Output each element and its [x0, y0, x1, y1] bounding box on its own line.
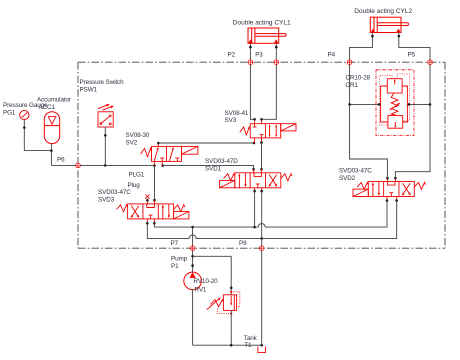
svg-text:Tank: Tank: [244, 335, 258, 342]
svg-text:SVD3: SVD3: [98, 197, 115, 204]
svg-text:Pump: Pump: [171, 256, 188, 263]
svg-text:SV08-41: SV08-41: [225, 110, 249, 117]
svg-text:SV2: SV2: [126, 140, 138, 147]
svg-text:SVD1: SVD1: [205, 165, 222, 172]
svg-text:SVD2: SVD2: [339, 175, 356, 182]
svg-text:PSW1: PSW1: [80, 87, 98, 94]
svg-text:CR10-28: CR10-28: [346, 75, 371, 82]
svg-text:P5: P5: [408, 52, 416, 59]
svg-text:Plug: Plug: [128, 182, 141, 189]
svg-text:P2: P2: [228, 52, 236, 59]
svg-text:PLG1: PLG1: [129, 172, 145, 179]
svg-text:PG1: PG1: [3, 109, 16, 116]
svg-text:SVD03-47C: SVD03-47C: [98, 189, 131, 196]
svg-text:P4: P4: [328, 52, 336, 59]
svg-text:T1: T1: [244, 342, 252, 349]
svg-text:Double acting CYL1: Double acting CYL1: [233, 20, 291, 27]
svg-text:Pressure Switch: Pressure Switch: [80, 79, 125, 86]
svg-text:Accumulator: Accumulator: [37, 97, 71, 104]
svg-text:P1: P1: [171, 263, 179, 270]
svg-text:RV10-20: RV10-20: [194, 278, 219, 285]
svg-text:P6: P6: [57, 157, 65, 164]
svg-text:SVD03-47C: SVD03-47C: [339, 168, 372, 175]
svg-text:SV3: SV3: [225, 117, 237, 124]
svg-text:P7: P7: [171, 240, 179, 247]
svg-text:ACC1: ACC1: [39, 104, 56, 111]
svg-text:SV08-30: SV08-30: [126, 132, 150, 139]
svg-text:SVD03-47D: SVD03-47D: [205, 158, 238, 165]
svg-text:RV1: RV1: [195, 287, 207, 294]
svg-text:P8: P8: [239, 240, 247, 247]
svg-text:CR1: CR1: [346, 82, 359, 89]
svg-text:P3: P3: [255, 52, 263, 59]
svg-text:Double acting CYL2: Double acting CYL2: [354, 8, 412, 15]
